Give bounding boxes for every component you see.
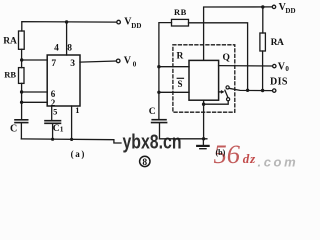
node: junction to pin 2 bbox=[20, 101, 23, 104]
svg-text:RB: RB bbox=[174, 7, 187, 17]
svg-text:DIS: DIS bbox=[270, 77, 288, 88]
node: junction to pin 7 bbox=[20, 58, 23, 61]
node: junction of pin4/8 stub on VDD rail bbox=[65, 20, 68, 23]
svg-text:(a): (a) bbox=[71, 149, 86, 159]
svg-text:0: 0 bbox=[285, 65, 289, 73]
resistor RB (a) bbox=[19, 68, 25, 84]
circled 8 figure number bbox=[140, 156, 150, 168]
svg-text:S: S bbox=[178, 79, 183, 89]
wire: node to pin 6 bbox=[22, 91, 48, 93]
terminal VDD of (a) bbox=[117, 20, 121, 24]
svg-text:C: C bbox=[53, 124, 60, 134]
terminal V0 of (a) bbox=[116, 59, 120, 63]
node: junction of flip-flop pin on ground rail bbox=[202, 137, 205, 140]
node: RB junction on DIS line bbox=[246, 89, 249, 92]
switch lever bbox=[225, 90, 228, 97]
node: pin1 junction on ground rail bbox=[70, 138, 73, 141]
svg-text:.com: .com bbox=[258, 154, 299, 169]
resistor RB (b) bbox=[172, 19, 189, 26]
svg-text:8: 8 bbox=[142, 158, 147, 168]
watermark 56dz.com bbox=[214, 139, 299, 169]
node: RA junction on VDD rail bbox=[261, 5, 264, 8]
wire: RB left to top of C node column bbox=[159, 23, 172, 120]
svg-text:4: 4 bbox=[54, 44, 59, 54]
svg-text:DD: DD bbox=[285, 7, 295, 15]
svg-text:R: R bbox=[177, 52, 184, 62]
wire: C bottom to ground rail (b) bbox=[159, 123, 161, 139]
svg-text:ybx8.cn: ybx8.cn bbox=[123, 132, 182, 154]
svg-text:8: 8 bbox=[67, 44, 72, 54]
wire: ground rail of (b) bbox=[160, 138, 207, 140]
wire: flip-flop bottom pin to ground rail bbox=[203, 100, 205, 139]
IC 555 box (a) bbox=[47, 55, 80, 106]
wire: pins 4,8 stub to VDD rail bbox=[66, 22, 68, 55]
capacitor C plates (a) bbox=[15, 119, 28, 121]
svg-text:1: 1 bbox=[75, 105, 79, 115]
switch bottom contact bbox=[227, 98, 230, 101]
wire: C1 bottom to ground rail bbox=[52, 124, 54, 140]
S-bar overline bbox=[177, 77, 183, 79]
capacitor C1 plates bbox=[45, 120, 61, 122]
ground symbol bbox=[202, 139, 204, 146]
wire: pin 5 stub bbox=[51, 106, 53, 120]
svg-text:3: 3 bbox=[70, 59, 75, 69]
svg-text:5: 5 bbox=[53, 106, 57, 116]
wire: R input bbox=[159, 66, 189, 68]
drive arrow from flip-flop to switch bbox=[219, 91, 222, 93]
node: R input junction bbox=[157, 65, 160, 68]
terminal VDD of (b) bbox=[272, 5, 275, 8]
svg-text:RB: RB bbox=[4, 70, 16, 80]
terminal V0 of (b) bbox=[273, 64, 276, 67]
wire: DIS line bbox=[229, 88, 272, 90]
wire: VDD top rail of (a) bbox=[22, 22, 116, 31]
wire: node to pin 7 bbox=[22, 59, 48, 61]
watermark ybx8.cn bbox=[123, 132, 182, 154]
wire: ground rail of (a) with step into watermark bbox=[21, 139, 121, 143]
wire: C bottom to ground rail bbox=[20, 123, 22, 139]
flip-flop box bbox=[189, 60, 219, 100]
node: C1 junction on ground rail bbox=[51, 138, 54, 141]
svg-text:DD: DD bbox=[131, 22, 141, 30]
svg-text:1: 1 bbox=[60, 125, 64, 134]
terminal DIS bbox=[273, 89, 276, 92]
svg-text:C: C bbox=[149, 107, 156, 117]
switch top contact bbox=[226, 86, 229, 89]
svg-text:V: V bbox=[124, 56, 132, 67]
wire: switch bottom return to flip-flop bottom pin bbox=[204, 101, 229, 104]
wire: node to pin 2 bbox=[22, 101, 48, 103]
wire: pin 3 output to V0 terminal bbox=[80, 61, 116, 62]
dashed 555 boundary box bbox=[173, 45, 235, 112]
svg-text:C: C bbox=[10, 123, 17, 134]
wire: RB right down to DIS line bbox=[189, 23, 248, 91]
svg-text:RA: RA bbox=[3, 37, 17, 47]
wire: VDD rail to RA top bbox=[262, 7, 264, 33]
resistor RA (b) bbox=[260, 33, 266, 51]
wire: VDD top rail of (b) down to flip-flop top bbox=[204, 7, 273, 61]
node: RA junction on DIS line bbox=[261, 89, 264, 92]
svg-text:Q: Q bbox=[223, 53, 230, 63]
node: junction to pin 6 bbox=[20, 90, 23, 93]
node: junction on flip-flop bottom pin bbox=[202, 103, 205, 106]
wire: S input bbox=[159, 91, 189, 93]
wire: pin 1 stub to ground rail bbox=[71, 106, 73, 140]
wire: Q output to V0 terminal bbox=[219, 65, 273, 67]
wire: RA bottom to RB top bbox=[21, 49, 23, 67]
wire: RB bottom down to capacitor C bbox=[21, 83, 23, 119]
wire: RA bottom down to DIS line bbox=[262, 51, 264, 91]
capacitor C plates (b) bbox=[152, 119, 166, 121]
node: S input junction bbox=[157, 91, 160, 94]
svg-text:RA: RA bbox=[271, 38, 284, 48]
resistor RA (a) bbox=[19, 31, 25, 49]
svg-text:7: 7 bbox=[51, 59, 56, 69]
svg-text:(b): (b) bbox=[216, 148, 226, 157]
svg-text:dz: dz bbox=[243, 151, 256, 166]
svg-text:0: 0 bbox=[133, 60, 137, 68]
